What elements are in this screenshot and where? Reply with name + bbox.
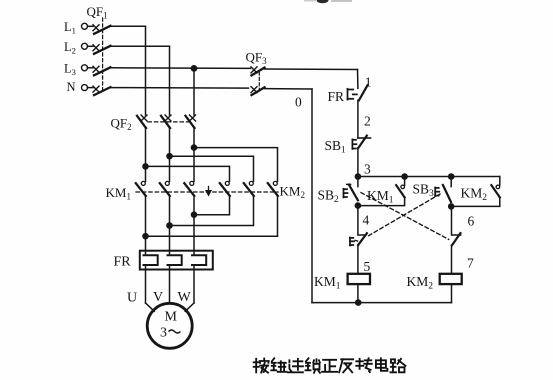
svg-text:M: M	[165, 310, 178, 325]
svg-text:1: 1	[365, 75, 372, 90]
svg-text:0: 0	[295, 95, 302, 110]
svg-text:KM1: KM1	[314, 274, 341, 292]
svg-text:6: 6	[468, 214, 475, 229]
svg-text:L1: L1	[64, 20, 76, 36]
svg-text:5: 5	[364, 259, 371, 274]
svg-text:4: 4	[363, 213, 370, 228]
svg-text:W: W	[178, 290, 192, 305]
svg-text:KM1: KM1	[367, 188, 394, 206]
svg-text:V: V	[153, 290, 163, 305]
svg-text:2: 2	[364, 114, 371, 129]
svg-text:KM2: KM2	[280, 184, 305, 201]
svg-text:FR: FR	[114, 255, 132, 270]
svg-text:SB3: SB3	[413, 182, 435, 200]
svg-text:U: U	[127, 291, 137, 306]
svg-text:FR: FR	[328, 89, 345, 104]
svg-text:QF1: QF1	[87, 4, 108, 21]
svg-text:SB1: SB1	[325, 138, 347, 156]
svg-text:3: 3	[364, 162, 371, 177]
svg-text:3: 3	[160, 326, 167, 341]
svg-text:KM2: KM2	[407, 274, 434, 292]
svg-text:SB2: SB2	[318, 188, 340, 206]
svg-text:L2: L2	[64, 40, 76, 56]
svg-text:KM2: KM2	[461, 186, 488, 204]
svg-text:KM1: KM1	[106, 185, 131, 202]
svg-text:L3: L3	[64, 62, 76, 78]
svg-text:7: 7	[467, 256, 474, 271]
svg-text:QF2: QF2	[111, 116, 132, 133]
svg-text:QF3: QF3	[246, 50, 268, 67]
svg-text:N: N	[67, 80, 76, 94]
